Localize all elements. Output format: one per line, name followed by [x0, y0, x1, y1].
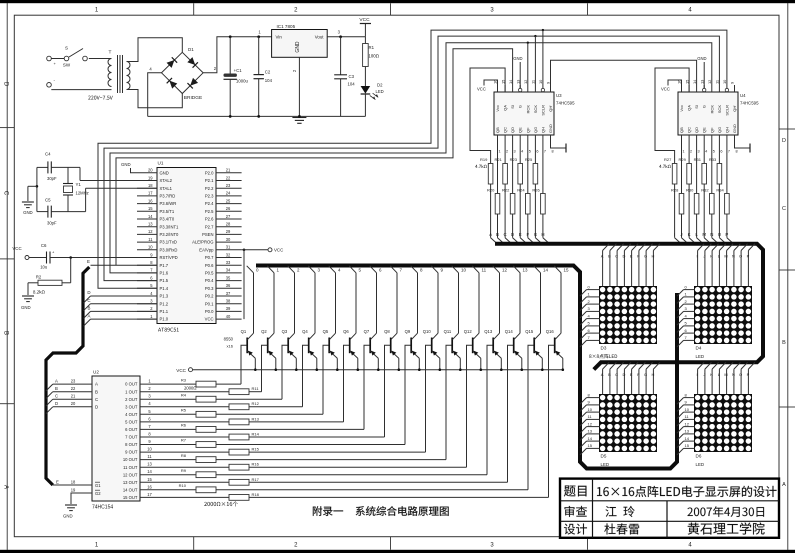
svg-text:3 OUT: 3 OUT	[125, 404, 138, 409]
resistor R3 2000	[140, 377, 241, 389]
transistor Q10 8550	[423, 266, 444, 371]
svg-text:Q6: Q6	[343, 329, 349, 334]
svg-text:GND: GND	[548, 124, 553, 133]
resistor R33 4.7k	[709, 148, 722, 231]
wire P1.5 to shift register clocks	[104, 35, 719, 281]
svg-text:P3.6/WR: P3.6/WR	[160, 201, 177, 206]
U3 GND tie OE	[513, 56, 544, 92]
resistor R11 2000	[140, 386, 262, 394]
shift register U3 74HC595	[494, 92, 575, 135]
capacitor C2 104	[254, 37, 273, 117]
svg-text:QA: QA	[687, 105, 692, 111]
svg-text:J: J	[680, 232, 682, 237]
svg-text:SCK: SCK	[717, 105, 722, 114]
svg-text:I: I	[674, 232, 675, 237]
svg-text:35: 35	[226, 275, 231, 280]
svg-text:K: K	[710, 254, 713, 259]
svg-text:6 OUT: 6 OUT	[125, 427, 138, 432]
svg-text:14: 14	[588, 436, 593, 441]
svg-text:11: 11	[147, 454, 152, 459]
svg-text:10: 10	[461, 268, 467, 273]
U1 GND pin label	[121, 162, 137, 173]
svg-text:9 OUT: 9 OUT	[125, 450, 138, 455]
D6 column stubs	[697, 362, 755, 394]
svg-text:6: 6	[720, 150, 722, 154]
wire base riser Q15	[528, 345, 534, 490]
svg-text:15: 15	[588, 443, 593, 448]
svg-text:D4: D4	[696, 346, 702, 351]
VCC node RST	[12, 246, 29, 260]
svg-text:Q5: Q5	[323, 329, 329, 334]
svg-text:R3: R3	[181, 377, 187, 382]
svg-text:22: 22	[71, 386, 76, 391]
svg-text:R4: R4	[181, 392, 187, 397]
svg-text:A: A	[782, 482, 786, 488]
svg-text:M: M	[724, 254, 727, 259]
transistor Q11 8550	[444, 266, 467, 371]
capacitor C4 30pF	[37, 152, 80, 182]
svg-text:3: 3	[698, 150, 700, 154]
ground symbol crystal	[22, 186, 37, 215]
U4 column node letters	[674, 231, 734, 244]
svg-text:D2: D2	[377, 83, 383, 88]
address bus A-D E thick	[46, 267, 89, 485]
svg-text:M: M	[702, 232, 706, 237]
svg-text:1: 1	[498, 150, 500, 154]
crystal Y1 12MHz	[63, 167, 89, 211]
svg-text:R18: R18	[252, 492, 260, 497]
resistor R14 2000	[140, 432, 385, 440]
title block row2 text	[564, 506, 764, 517]
transistor Q2 8550	[261, 266, 279, 371]
svg-text:QH: QH	[540, 127, 545, 133]
U3 VCC pin	[477, 80, 498, 92]
svg-text:P1.3: P1.3	[160, 294, 169, 299]
svg-text:R8: R8	[181, 453, 187, 458]
svg-text:A: A	[88, 313, 91, 318]
svg-text:QH: QH	[724, 127, 729, 133]
svg-text:7: 7	[544, 150, 546, 154]
svg-text:A: A	[95, 382, 98, 387]
transistor Q12 8550	[464, 266, 487, 371]
transistor Q4 8550	[302, 266, 320, 371]
svg-text:QE: QE	[518, 127, 523, 133]
svg-text:3: 3	[514, 150, 516, 154]
svg-text:13: 13	[588, 429, 593, 434]
svg-text:R29: R29	[679, 157, 687, 162]
svg-text:G: G	[644, 372, 647, 377]
svg-text:O: O	[739, 372, 742, 377]
svg-text:Q11: Q11	[444, 329, 452, 334]
svg-text:10: 10	[685, 407, 690, 412]
svg-text:15: 15	[685, 443, 690, 448]
capacitor C5 30pF	[37, 198, 86, 226]
svg-text:15: 15	[684, 80, 689, 84]
svg-text:1000u: 1000u	[236, 79, 249, 84]
svg-text:Vcc: Vcc	[495, 105, 500, 112]
svg-text:D: D	[95, 404, 98, 409]
svg-text:P1.2: P1.2	[160, 301, 169, 306]
resistor R23 4.7k	[510, 148, 523, 231]
wire P1.6 to shift register latch	[110, 42, 712, 273]
resistor R13 2000	[140, 416, 344, 424]
svg-text:P0.1: P0.1	[205, 301, 214, 306]
wire switch to transformer	[51, 59, 111, 90]
svg-text:2: 2	[506, 150, 508, 154]
resistor R12 2000	[140, 401, 303, 409]
svg-text:P0.2: P0.2	[205, 294, 214, 299]
svg-text:Q10: Q10	[423, 329, 432, 334]
svg-text:36: 36	[226, 283, 231, 288]
svg-text:P2.6: P2.6	[205, 217, 214, 222]
column bus A-P thick	[495, 244, 763, 370]
wire U3 QH to U4 serial cascade	[551, 60, 697, 85]
svg-text:H: H	[651, 254, 654, 259]
svg-text:QG: QG	[717, 127, 722, 133]
svg-text:A: A	[601, 254, 604, 259]
svg-text:Q2: Q2	[261, 329, 267, 334]
svg-text:Y1: Y1	[76, 182, 82, 187]
resistor R34 4.7k	[716, 148, 729, 231]
svg-text:P3.1/TxD: P3.1/TxD	[160, 240, 177, 245]
svg-text:P3.7/RD: P3.7/RD	[160, 194, 176, 199]
resistor R10 2000	[140, 483, 528, 493]
svg-text:P: P	[747, 372, 750, 377]
decoder U2 74HC154	[92, 370, 140, 511]
D4 column stubs	[697, 244, 755, 286]
wire base riser Q14	[508, 345, 514, 482]
svg-text:P1.0: P1.0	[160, 317, 169, 322]
svg-text:G: G	[518, 105, 523, 108]
svg-text:1 OUT: 1 OUT	[125, 389, 138, 394]
svg-text:U4: U4	[740, 93, 746, 98]
transistor Q6 8550	[343, 266, 361, 371]
svg-text:Q8: Q8	[384, 329, 390, 334]
svg-text:24: 24	[226, 191, 231, 196]
svg-text:12: 12	[148, 229, 153, 234]
wire P1.3-P1.0 to bus	[84, 290, 158, 326]
svg-text:13 OUT: 13 OUT	[123, 480, 138, 485]
svg-text:7 OUT: 7 OUT	[125, 435, 138, 440]
svg-text:B: B	[782, 340, 786, 346]
svg-text:11: 11	[715, 80, 720, 84]
wire transformer secondary to bridge	[127, 38, 183, 108]
svg-text:21: 21	[226, 168, 231, 173]
wire P1.4 to shift register clocks	[98, 29, 727, 288]
resistor R9 2000	[140, 468, 487, 478]
svg-text:J: J	[703, 254, 705, 259]
svg-text:QH': QH'	[548, 105, 553, 112]
svg-text:R7: R7	[181, 438, 187, 443]
svg-text:P2.2: P2.2	[205, 186, 214, 191]
svg-text:11 OUT: 11 OUT	[123, 465, 138, 470]
resistor R21 4.7k	[495, 148, 508, 231]
wire regulator output to VCC	[327, 35, 365, 38]
svg-text:R28: R28	[671, 188, 679, 193]
svg-text:RCK: RCK	[525, 105, 530, 114]
svg-text:10u: 10u	[40, 265, 48, 270]
svg-text:C: C	[615, 254, 618, 259]
svg-text:13: 13	[523, 268, 529, 273]
svg-text:R32: R32	[701, 188, 709, 193]
transistor Q8 8550	[384, 266, 402, 371]
svg-text:P1.5: P1.5	[160, 278, 169, 283]
svg-text:2 OUT: 2 OUT	[125, 397, 138, 402]
svg-text:104: 104	[265, 78, 273, 83]
svg-text:C: C	[87, 298, 90, 303]
svg-text:G: G	[534, 232, 538, 237]
svg-text:P1.1: P1.1	[160, 309, 169, 314]
U2 enable G2 wire	[71, 488, 92, 505]
U4 bottom pin stubs	[682, 135, 751, 154]
VCC symbol power	[359, 17, 371, 37]
svg-text:17: 17	[147, 492, 152, 497]
wire base riser Q11	[446, 345, 452, 459]
svg-text:LED: LED	[601, 462, 610, 467]
svg-text:VCC: VCC	[12, 246, 21, 251]
svg-text:A: A	[55, 379, 58, 384]
svg-text:O: O	[739, 254, 742, 259]
svg-text:4 OUT: 4 OUT	[125, 412, 138, 417]
resistor R5 2000	[140, 408, 323, 418]
wire base riser Q4	[303, 345, 309, 407]
svg-text:QD: QD	[694, 127, 699, 133]
svg-text:G: G	[702, 105, 707, 108]
svg-text:C: C	[504, 232, 507, 237]
resistor R7 2000	[140, 438, 405, 448]
svg-text:9: 9	[546, 82, 551, 84]
svg-text:G1: G1	[95, 483, 101, 488]
svg-text:P1.6: P1.6	[160, 271, 169, 276]
svg-text:P2.5: P2.5	[205, 209, 214, 214]
wire base riser Q10	[426, 345, 432, 452]
svg-text:14: 14	[148, 214, 153, 219]
svg-text:H: H	[541, 232, 544, 237]
svg-text:32: 32	[226, 252, 231, 257]
svg-text:QB: QB	[495, 127, 500, 133]
svg-text:15 OUT: 15 OUT	[123, 495, 138, 500]
svg-text:ALE/PROG: ALE/PROG	[192, 240, 213, 245]
svg-text:C: C	[55, 394, 58, 399]
svg-text:C6: C6	[41, 243, 47, 248]
svg-text:P0.5: P0.5	[205, 271, 214, 276]
U4 top pin stubs	[677, 79, 735, 92]
svg-text:10: 10	[147, 447, 152, 452]
svg-text:Vout: Vout	[315, 35, 325, 40]
resistor R20 4.7k	[487, 148, 500, 231]
svg-text:D: D	[55, 401, 58, 406]
svg-text:M: M	[724, 372, 727, 377]
svg-text:12: 12	[685, 421, 690, 426]
svg-text:R20: R20	[487, 188, 495, 193]
svg-text:GND: GND	[697, 56, 706, 61]
U1 right pin stubs	[216, 168, 242, 320]
svg-text:37: 37	[226, 291, 231, 296]
LED matrix D5	[599, 394, 657, 467]
svg-text:QC: QC	[687, 127, 692, 133]
microcontroller U1 AT89C51	[157, 161, 216, 332]
svg-text:20: 20	[71, 401, 76, 406]
U4 GND tie OE	[697, 56, 728, 92]
svg-text:VCC: VCC	[205, 317, 214, 322]
svg-text:10 OUT: 10 OUT	[123, 457, 138, 462]
svg-text:P3.4/T0: P3.4/T0	[160, 217, 175, 222]
ground symbol U2	[63, 505, 77, 519]
svg-text:U2: U2	[93, 370, 99, 375]
U3 column node letters	[489, 231, 549, 244]
svg-text:P0.6: P0.6	[205, 263, 214, 268]
capacitor C1 1000u	[224, 37, 249, 117]
svg-text:13: 13	[699, 80, 704, 84]
svg-text:F: F	[526, 232, 529, 237]
svg-text:R22: R22	[502, 188, 510, 193]
svg-text:39: 39	[226, 306, 231, 311]
resistor R27 4.7k	[664, 157, 677, 231]
svg-text:QD: QD	[510, 127, 515, 133]
svg-text:5: 5	[529, 150, 531, 154]
wire base riser Q6	[344, 345, 350, 422]
svg-text:P2.0: P2.0	[205, 170, 214, 175]
svg-text:Q16: Q16	[546, 329, 555, 334]
svg-text:R11: R11	[252, 386, 260, 391]
svg-text:6: 6	[536, 150, 538, 154]
wire base riser Q9	[405, 345, 411, 444]
svg-text:XTAL1: XTAL1	[160, 186, 173, 191]
resistor R32 4.7k	[701, 148, 714, 231]
resistor R18 2000	[140, 492, 549, 500]
svg-text:EA/Vpp: EA/Vpp	[199, 247, 214, 252]
svg-text:D: D	[87, 290, 90, 295]
transistor Q13 8550	[484, 266, 507, 371]
svg-text:31: 31	[226, 245, 231, 250]
capacitor C3 104	[334, 37, 355, 117]
svg-text:C: C	[782, 206, 786, 212]
svg-text:R23: R23	[510, 157, 518, 162]
svg-text:D1: D1	[188, 47, 194, 52]
svg-text:QF: QF	[709, 127, 714, 133]
D4 row stubs	[677, 284, 694, 347]
svg-text:R15: R15	[252, 447, 260, 452]
svg-text:13: 13	[148, 222, 153, 227]
svg-text:12: 12	[502, 268, 508, 273]
LED matrix D4	[694, 286, 752, 359]
svg-text:H: H	[651, 372, 654, 377]
svg-text:23: 23	[71, 379, 76, 384]
wire base riser Q12	[467, 345, 473, 467]
svg-text:5 OUT: 5 OUT	[125, 420, 138, 425]
svg-text:RST/VPD: RST/VPD	[160, 255, 178, 260]
svg-text:4: 4	[705, 150, 707, 154]
svg-text:GND: GND	[160, 170, 169, 175]
svg-text:C4: C4	[45, 152, 51, 157]
svg-text:16: 16	[147, 484, 152, 489]
resistor R17 2000	[140, 477, 508, 485]
svg-text:SCK: SCK	[533, 105, 538, 114]
svg-text:30: 30	[226, 237, 231, 242]
svg-text:8 OUT: 8 OUT	[125, 442, 138, 447]
svg-text:R19: R19	[480, 157, 488, 162]
resistor R6 2000	[140, 423, 364, 433]
svg-text:D6: D6	[696, 454, 702, 459]
transistor Q7 8550	[364, 266, 382, 371]
LED matrix D3	[589, 286, 657, 358]
svg-text:GND: GND	[63, 514, 73, 519]
D5 column stubs	[601, 362, 660, 394]
svg-text:13: 13	[685, 429, 690, 434]
svg-text:27: 27	[226, 214, 231, 219]
resistor R26 4.7k	[532, 148, 545, 231]
svg-text:E: E	[630, 372, 633, 377]
svg-text:74HC595: 74HC595	[740, 101, 759, 106]
svg-text:18: 18	[148, 183, 153, 188]
svg-text:28: 28	[226, 222, 231, 227]
svg-text:VCC: VCC	[477, 87, 486, 92]
resistor R2 8.2k	[28, 258, 71, 294]
wire base riser Q16	[549, 345, 555, 497]
svg-text:D: D	[622, 254, 625, 259]
svg-text:38: 38	[226, 299, 231, 304]
svg-text:10: 10	[148, 245, 153, 250]
svg-text:4: 4	[521, 150, 523, 154]
svg-text:C: C	[3, 191, 9, 196]
wire base riser Q1	[241, 345, 247, 384]
svg-text:R27: R27	[664, 157, 672, 162]
svg-text:P3.0/RxD: P3.0/RxD	[160, 247, 178, 252]
svg-text:34: 34	[226, 268, 231, 273]
svg-text:30pF: 30pF	[47, 176, 57, 181]
svg-text:P2.7: P2.7	[205, 224, 214, 229]
svg-text:K: K	[688, 232, 691, 237]
svg-text:18: 18	[71, 480, 76, 485]
svg-text:R34: R34	[716, 188, 724, 193]
resistor R25 4.7k	[525, 148, 538, 231]
svg-text:Q14: Q14	[505, 329, 514, 334]
ground symbol R2	[21, 283, 34, 310]
svg-text:GND: GND	[513, 56, 522, 61]
voltage regulator IC1 7805	[272, 24, 341, 57]
U3 bottom pin stubs	[498, 135, 567, 154]
U2 address input wires	[46, 379, 92, 414]
transistor Q5 8550	[323, 266, 341, 371]
svg-text:9: 9	[730, 82, 735, 84]
svg-text:2: 2	[690, 150, 692, 154]
svg-text:B: B	[3, 331, 9, 335]
svg-text:D: D	[3, 82, 9, 87]
svg-text:C: C	[615, 372, 618, 377]
wire crystal to XTAL pins	[36, 167, 157, 211]
svg-text:Q1: Q1	[241, 329, 247, 334]
svg-text:12: 12	[588, 421, 593, 426]
svg-text:11: 11	[531, 80, 536, 84]
D3 row stubs	[580, 284, 599, 347]
svg-text:R26: R26	[532, 188, 540, 193]
resistor R1 100	[363, 37, 379, 86]
resistor R22 4.7k	[502, 148, 515, 231]
svg-text:29: 29	[226, 229, 231, 234]
svg-text:GND: GND	[23, 210, 33, 215]
U1 pin labels	[160, 170, 215, 321]
row bus 0-15 thick left	[256, 266, 677, 469]
svg-text:QB: QB	[679, 127, 684, 133]
ground symbol power	[292, 118, 306, 124]
svg-text:R1: R1	[369, 45, 375, 50]
resistor R16 2000	[140, 462, 467, 470]
svg-text:R21: R21	[495, 157, 503, 162]
svg-text:IC1 7805: IC1 7805	[277, 24, 296, 29]
svg-text:C3: C3	[349, 74, 355, 79]
svg-text:P3.3/INT1: P3.3/INT1	[160, 224, 180, 229]
svg-text:B: B	[496, 232, 499, 237]
